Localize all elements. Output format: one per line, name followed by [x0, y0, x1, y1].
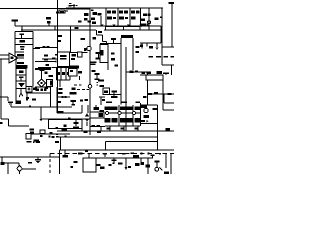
diode D8	[120, 107, 134, 110]
label text	[121, 128, 125, 130]
wire top rail right	[90, 7, 163, 9]
wire input+	[0, 54, 9, 56]
label text	[41, 88, 43, 91]
resistor R54	[128, 166, 131, 168]
resistor R27	[148, 93, 152, 95]
label text	[106, 101, 112, 103]
wire	[86, 122, 88, 126]
junction arrow	[147, 24, 150, 27]
box coil	[146, 75, 163, 80]
wire	[26, 87, 51, 107]
label text	[33, 88, 37, 91]
resistor R55	[146, 165, 151, 168]
capacitor C4	[111, 38, 116, 43]
label text	[44, 89, 47, 91]
label block inverse	[17, 65, 28, 69]
wire	[52, 67, 71, 69]
junction dot	[141, 153, 143, 155]
capacitor C6	[19, 77, 24, 81]
resistor R35	[105, 118, 111, 122]
label tick	[35, 68, 38, 70]
resistor R45	[28, 162, 32, 164]
wire stepped	[1, 119, 29, 126]
junction dot	[41, 82, 43, 84]
label text	[92, 70, 96, 72]
resistor R4	[98, 13, 102, 16]
box right	[162, 47, 174, 65]
resistor R12	[140, 24, 146, 27]
resistor R39	[166, 128, 171, 131]
resistor R10	[141, 19, 145, 22]
resistor ladder box left	[15, 32, 40, 87]
resistor R65	[17, 54, 24, 57]
resistor R57	[164, 172, 169, 175]
box small	[78, 52, 83, 57]
wire	[59, 150, 61, 174]
resistor stack R30	[30, 129, 35, 134]
junction	[127, 25, 130, 28]
transistor Q1	[46, 17, 55, 30]
resistor R15	[35, 46, 58, 48]
junction dot	[159, 153, 161, 155]
box small	[69, 69, 78, 77]
label text	[71, 100, 77, 105]
label text	[91, 61, 97, 63]
resistor R22	[164, 56, 169, 58]
wire	[100, 127, 102, 132]
capacitor C3	[96, 52, 102, 60]
box small	[40, 130, 45, 134]
resistor R11	[155, 18, 159, 21]
wire	[70, 26, 72, 52]
resistor R6	[107, 17, 112, 20]
label tick	[56, 134, 58, 135]
resistor R13	[20, 40, 26, 42]
wire	[100, 42, 121, 44]
box tall U3	[100, 44, 108, 62]
label text	[36, 141, 39, 143]
resistor R8	[131, 17, 136, 20]
resistor R51	[118, 163, 123, 165]
resistor R42	[55, 141, 59, 143]
resistor R18	[72, 54, 77, 57]
capacitor C8	[59, 80, 63, 90]
wire mid bus	[105, 25, 140, 27]
capacitor C7	[39, 68, 44, 79]
wire cell divider 2	[117, 8, 119, 26]
label text	[58, 101, 62, 103]
resistor R53	[135, 163, 140, 166]
label text	[107, 128, 111, 130]
resistor R37	[135, 118, 140, 122]
resistor R29	[168, 93, 172, 95]
wire staircase	[97, 30, 107, 45]
junction dot	[148, 13, 151, 16]
label text	[58, 111, 64, 113]
diode D10	[17, 166, 22, 172]
wire left edge vertical	[0, 59, 2, 119]
wire	[152, 80, 163, 94]
capacitor C10	[98, 80, 104, 82]
label text	[98, 31, 102, 33]
diode D3	[131, 10, 135, 13]
resistor R23	[16, 101, 21, 104]
resistor R26	[157, 71, 163, 74]
resistor R14	[20, 46, 25, 48]
capacitor C9	[95, 73, 100, 80]
label text	[44, 55, 48, 57]
label text	[111, 58, 115, 61]
resistor R59	[78, 152, 83, 154]
resistor R33	[90, 125, 105, 127]
transistor Q3	[88, 85, 92, 89]
wire	[57, 105, 88, 113]
label text	[91, 63, 96, 65]
label text	[45, 87, 49, 90]
junction dot	[148, 153, 150, 155]
transistor Q4	[94, 105, 100, 110]
resistor R50	[109, 164, 112, 166]
wire	[83, 157, 148, 159]
resistor R21	[156, 56, 161, 58]
wire	[140, 105, 158, 150]
resistor R52	[131, 153, 135, 155]
wire	[89, 119, 91, 131]
resistor R25	[57, 96, 70, 98]
capacitor C19	[151, 155, 155, 158]
capacitor C1	[71, 4, 78, 8]
box small	[26, 133, 70, 135]
label text	[34, 140, 40, 142]
diode D3b	[136, 10, 140, 13]
label ZZ	[81, 38, 86, 40]
junction	[140, 25, 143, 28]
wire	[88, 154, 90, 159]
transistor Q9	[132, 111, 135, 114]
resistor R64	[97, 131, 101, 134]
label text	[44, 59, 48, 61]
diode D12	[127, 118, 133, 122]
wire	[7, 163, 9, 174]
wire	[0, 96, 8, 98]
resistor R34	[84, 131, 88, 134]
shield dots	[97, 85, 98, 86]
power flag V3	[163, 73, 169, 76]
label text	[136, 46, 140, 48]
wire	[21, 26, 23, 32]
resistor R22b	[171, 56, 175, 58]
diode D9	[135, 107, 140, 110]
resistor R20	[149, 56, 154, 58]
wire	[42, 58, 58, 60]
wire output	[18, 57, 24, 59]
label text	[58, 92, 63, 94]
wire	[100, 16, 102, 26]
wire arrow down	[40, 107, 43, 122]
IC box U2	[58, 52, 70, 67]
wire	[132, 38, 134, 70]
resistor R24	[8, 97, 13, 105]
capacitor C2	[20, 34, 25, 36]
label text	[113, 17, 116, 19]
capacitor C17	[103, 153, 107, 157]
label text	[125, 17, 128, 19]
label text	[26, 97, 29, 99]
diode D5	[85, 113, 89, 117]
wire main vertical bus	[57, 0, 59, 113]
box TB	[47, 80, 53, 87]
label text	[49, 75, 54, 77]
label tick	[91, 10, 94, 12]
wire	[19, 172, 21, 175]
wire	[56, 87, 58, 113]
label text	[93, 37, 97, 40]
wire	[171, 65, 173, 75]
diode D1b	[112, 10, 116, 13]
wire long vertical	[125, 47, 127, 131]
wire box bottom right	[106, 142, 158, 151]
label text	[75, 27, 79, 29]
wire arrow	[160, 168, 163, 171]
wire	[140, 25, 161, 27]
power flag V1	[12, 19, 19, 26]
wire	[170, 154, 172, 175]
resistor R41	[36, 141, 40, 143]
wire	[70, 51, 88, 53]
wire	[15, 25, 105, 27]
label text	[55, 54, 58, 56]
wire	[141, 120, 149, 123]
wire	[163, 93, 174, 95]
capacitor C20	[130, 70, 134, 73]
label text	[153, 108, 158, 110]
wire cell divider 4	[140, 8, 142, 26]
diode D2b	[124, 10, 128, 13]
resistor R58	[62, 128, 68, 131]
wire	[148, 8, 150, 30]
wire	[161, 8, 163, 65]
resistor R31	[52, 136, 55, 138]
power flag V2	[169, 2, 176, 47]
resistor R38	[144, 115, 150, 118]
wire bottom bus	[57, 130, 158, 132]
label tick	[68, 117, 71, 119]
wire B+ rail	[21, 29, 96, 31]
wire arrow	[125, 158, 128, 170]
wire cell divider 1	[105, 8, 107, 26]
shield dashes	[74, 84, 82, 85]
label text	[111, 53, 115, 55]
capacitor C5	[19, 70, 24, 73]
capacitor C15	[112, 158, 117, 164]
resistor R44	[1, 157, 5, 165]
label block inverse	[70, 66, 79, 69]
label tick	[50, 132, 53, 134]
resistor R2	[84, 18, 88, 21]
wire cell divider 3	[129, 8, 131, 26]
junction	[113, 25, 116, 28]
box plus	[26, 87, 32, 93]
label text	[143, 96, 147, 98]
wire	[110, 103, 140, 131]
op-amp label	[11, 57, 14, 60]
wire	[120, 38, 122, 105]
resistor R16	[46, 64, 50, 66]
transistor Q5	[141, 105, 149, 113]
wire input-	[0, 58, 9, 60]
label text	[78, 71, 82, 74]
resistor R32	[100, 110, 105, 112]
resistor R56	[141, 162, 145, 165]
junction	[29, 106, 31, 108]
junction arrow	[156, 43, 159, 50]
wire bus	[41, 118, 90, 120]
transistor Q8	[118, 111, 121, 114]
label text	[71, 58, 75, 60]
resistor R49	[100, 167, 105, 170]
wire	[147, 72, 149, 105]
wire box bottom	[11, 105, 72, 107]
label text	[52, 58, 56, 60]
wire arrow	[26, 92, 29, 101]
label VIDEO	[17, 62, 24, 64]
resistor R36	[120, 118, 126, 122]
transistor Q6	[133, 155, 139, 158]
label text	[36, 89, 40, 92]
label text	[102, 99, 105, 101]
shield dots	[97, 82, 98, 83]
resistor R9	[143, 14, 148, 17]
ground	[18, 83, 25, 88]
resistor R43	[63, 150, 69, 158]
label text	[80, 100, 83, 102]
resistor R28	[154, 92, 158, 94]
capacitor ladder left lower	[16, 56, 26, 104]
transistor Q7	[155, 167, 159, 171]
wire	[35, 86, 51, 88]
wire	[138, 158, 153, 174]
label tick	[85, 150, 88, 152]
label block inverse	[70, 92, 77, 95]
wire	[81, 129, 83, 132]
wire	[56, 105, 58, 113]
box small	[103, 88, 110, 95]
resistor R46	[74, 161, 78, 163]
wire	[158, 94, 175, 131]
diode D11	[111, 118, 117, 122]
resistor R2b	[91, 18, 95, 21]
label text	[121, 101, 127, 103]
capacitor C18	[122, 153, 126, 155]
wire lower rail right	[104, 26, 161, 43]
label tick	[56, 136, 58, 137]
resistor R60	[135, 71, 138, 73]
wire	[107, 63, 109, 71]
junction blob	[65, 136, 67, 138]
wire long bottom-left bus	[0, 156, 60, 158]
box small	[26, 134, 31, 140]
diode D6	[85, 119, 89, 123]
resistor R48	[97, 164, 101, 166]
label text	[136, 101, 141, 103]
wire long bottom bus	[60, 149, 175, 151]
label text	[58, 40, 62, 42]
label text	[69, 3, 72, 4]
wire cells row2	[105, 105, 140, 126]
label text	[100, 85, 105, 87]
wire	[49, 119, 83, 128]
transistor Q10	[105, 111, 108, 114]
wire top-left rail	[0, 8, 66, 10]
shield dots	[72, 89, 89, 90]
capacitor C16	[155, 161, 160, 168]
dashed shield vertical	[49, 154, 51, 175]
diode bridge D4	[38, 79, 46, 87]
wire	[126, 71, 148, 73]
diode D2	[119, 10, 123, 13]
resistor R61	[72, 88, 76, 91]
resistor R19	[140, 43, 143, 49]
box U4	[90, 112, 104, 118]
wire Y	[19, 89, 23, 97]
resistor R1	[84, 13, 89, 16]
label text	[84, 48, 87, 51]
wire	[140, 74, 163, 76]
box bottom center	[83, 158, 96, 172]
transistor Q11	[148, 21, 151, 24]
label SL	[147, 43, 153, 48]
capacitor C11	[111, 91, 118, 99]
wire vertical x90	[89, 8, 91, 135]
capacitor C14	[73, 118, 79, 129]
diode D1	[107, 10, 111, 13]
wire mid rail	[56, 137, 158, 150]
wire	[140, 42, 161, 44]
junction	[101, 24, 104, 27]
junction X	[56, 127, 59, 129]
wire	[2, 163, 36, 169]
label text	[33, 142, 35, 143]
wire	[109, 94, 121, 96]
label text	[32, 99, 36, 101]
resistor R3	[93, 12, 98, 15]
label tick	[0, 122, 3, 124]
wire	[165, 154, 167, 169]
label block inverse top	[121, 35, 133, 38]
label text	[69, 5, 72, 6]
dashed shield line	[50, 153, 174, 155]
capacitor C13	[147, 72, 152, 75]
wire	[79, 76, 81, 80]
fuse F1	[56, 10, 68, 14]
label block inverse	[38, 67, 51, 70]
capacitor C12	[142, 72, 146, 74]
wire	[35, 61, 56, 63]
transistor Q2	[87, 46, 91, 50]
diode D7	[105, 107, 118, 110]
label text	[88, 21, 92, 23]
wire	[164, 94, 174, 103]
op-amp U1	[9, 53, 18, 63]
label text	[45, 71, 48, 74]
label text	[78, 21, 82, 23]
heavy segment	[66, 7, 90, 9]
label tick	[49, 135, 51, 137]
ground	[35, 157, 41, 163]
resistor R5	[92, 22, 96, 24]
resistor R47	[71, 166, 74, 168]
resistor network RN1	[57, 68, 71, 80]
